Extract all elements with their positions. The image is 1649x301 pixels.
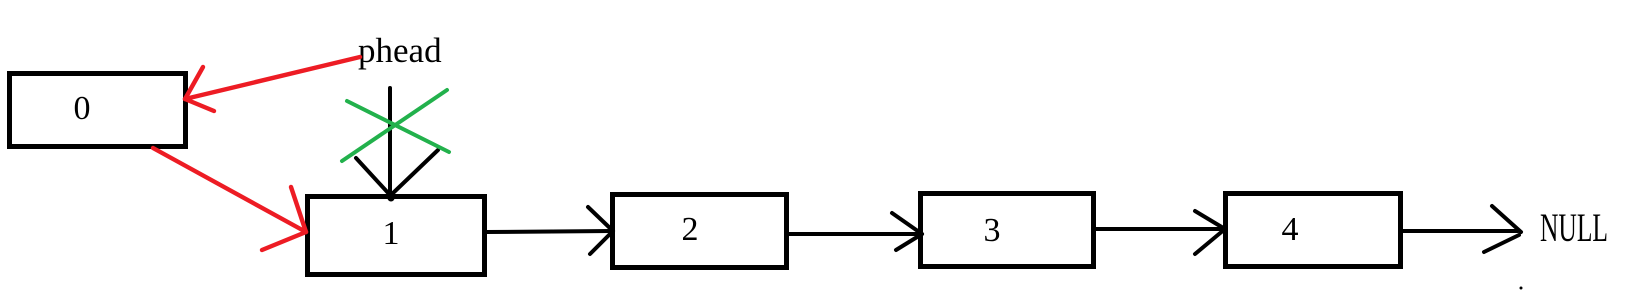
node 0 box	[10, 74, 186, 147]
green cross-out X over phead arrow	[342, 90, 449, 161]
node 2 box	[613, 195, 787, 268]
red arrow phead to node 0	[185, 57, 360, 111]
stray dot	[1520, 287, 1523, 290]
node 4 box	[1226, 194, 1401, 267]
svg-text:NULL: NULL	[1540, 205, 1608, 250]
svg-text:3: 3	[984, 212, 1001, 249]
svg-text:phead: phead	[358, 31, 442, 70]
node 3 box	[921, 194, 1094, 267]
red arrow node 0 to node 1	[153, 148, 306, 250]
node 1 box	[308, 197, 485, 275]
arrow phead to node 1 (black, crossed out)	[356, 88, 438, 202]
wire node 2 to node 3	[788, 213, 922, 250]
svg-text:2: 2	[682, 211, 699, 248]
svg-text:4: 4	[1282, 211, 1299, 248]
wire node 3 to node 4	[1095, 211, 1225, 254]
wire node 1 to node 2	[486, 207, 613, 254]
svg-text:0: 0	[74, 90, 91, 127]
svg-text:1: 1	[383, 215, 400, 252]
wire node 4 to NULL	[1402, 206, 1521, 252]
